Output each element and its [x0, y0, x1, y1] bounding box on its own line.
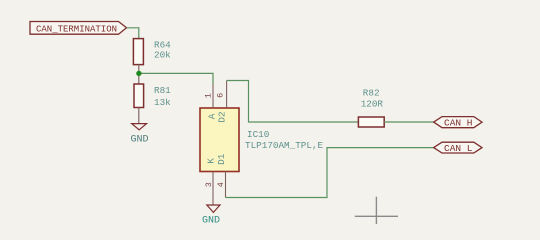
wire R64 to R81: [138, 65, 140, 84]
svg-text:CAN_TERMINATION: CAN_TERMINATION: [36, 24, 117, 34]
svg-text:R82: R82: [363, 88, 380, 99]
hierarchical label CAN_TERMINATION: [30, 22, 127, 35]
wire R81 to GND: [138, 108, 140, 124]
svg-text:GND: GND: [131, 135, 149, 146]
svg-text:CAN L: CAN L: [444, 143, 473, 154]
svg-text:R81: R81: [154, 85, 171, 96]
svg-text:4: 4: [216, 182, 226, 187]
pin 4: [216, 172, 226, 198]
junction node: [136, 71, 141, 76]
svg-text:D2: D2: [216, 111, 227, 122]
optocoupler IC10: [200, 108, 239, 172]
svg-text:3: 3: [204, 182, 214, 187]
svg-text:K: K: [206, 158, 217, 164]
wire junction to IC pin 1: [142, 73, 214, 84]
hierarchical label CAN_H: [434, 117, 482, 129]
resistor R81: [134, 84, 171, 108]
wire pin4 to CAN_L: [226, 148, 434, 198]
svg-text:13k: 13k: [154, 97, 171, 108]
svg-text:20k: 20k: [154, 50, 171, 61]
svg-text:GND: GND: [202, 216, 220, 224]
pin 1: [203, 84, 213, 108]
svg-text:120R: 120R: [361, 99, 384, 110]
resistor R64: [133, 39, 171, 65]
resistor R82: [358, 88, 384, 127]
pin 3: [204, 172, 214, 206]
svg-text:6: 6: [215, 93, 225, 98]
svg-text:IC10: IC10: [247, 129, 269, 140]
ground symbol GND1: [131, 124, 149, 146]
pin 6: [215, 81, 226, 109]
svg-text:D1: D1: [216, 153, 227, 165]
IC10 reference and value: [245, 129, 324, 151]
crosshair marker: [355, 197, 398, 224]
svg-text:TLP170AM_TPL,E: TLP170AM_TPL,E: [245, 140, 324, 151]
svg-text:1: 1: [203, 93, 213, 98]
svg-text:CAN H: CAN H: [444, 118, 473, 129]
wire pin6 to R82: [227, 81, 359, 123]
ground symbol GND2: [202, 205, 220, 227]
wire R82 to CAN_H: [384, 121, 434, 123]
wire label to R64: [127, 28, 139, 39]
hierarchical label CAN_L: [434, 142, 482, 154]
